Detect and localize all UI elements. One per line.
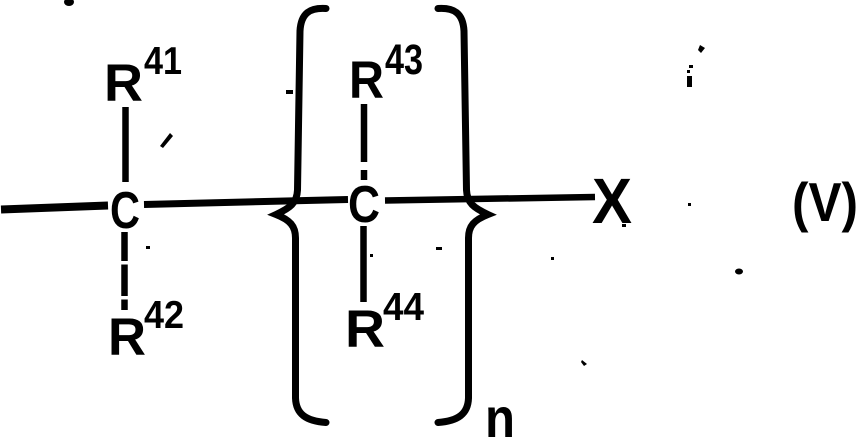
svg-text:X: X (592, 165, 632, 237)
svg-text:43: 43 (385, 36, 423, 84)
left repeat bracket { (276, 8, 326, 422)
label R42 (108, 294, 184, 367)
svg-text:R: R (345, 300, 385, 359)
bond C2-R43 (361, 104, 368, 180)
wire main-bond left segment (1, 206, 108, 210)
svg-text:C: C (110, 182, 140, 240)
svg-text:R: R (349, 51, 384, 110)
label R43 (349, 36, 423, 110)
bond C2-R44 (360, 226, 367, 302)
svg-text:41: 41 (144, 40, 182, 83)
label R41 (104, 40, 182, 113)
svg-text:C: C (348, 176, 380, 234)
svg-text:R: R (104, 54, 143, 113)
svg-text:(V): (V) (792, 171, 857, 233)
wire main-bond C2 to X (385, 197, 595, 201)
svg-text:42: 42 (144, 294, 184, 337)
right repeat bracket } (438, 8, 488, 422)
wire main-bond C1 to C2 (144, 200, 348, 205)
label R44 (345, 286, 424, 359)
svg-text:R: R (108, 308, 146, 367)
svg-text:44: 44 (383, 286, 424, 329)
bond C1-R42 (121, 232, 128, 310)
bond C1-R41 (122, 107, 129, 182)
svg-text:n: n (485, 386, 515, 439)
